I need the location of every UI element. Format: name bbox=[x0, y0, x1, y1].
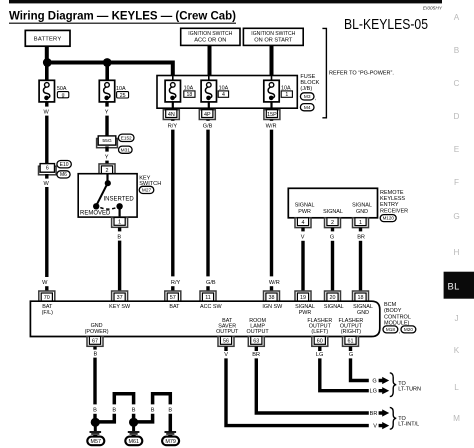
svg-text:W: W bbox=[44, 181, 50, 187]
wire W seg4 bbox=[45, 187, 48, 277]
svg-text:B: B bbox=[168, 408, 172, 414]
oval M120 bbox=[380, 215, 396, 222]
svg-text:H: H bbox=[454, 248, 460, 257]
svg-text:V: V bbox=[301, 235, 305, 241]
wire to fuse 25 bbox=[105, 63, 109, 82]
svg-text:SIGNAL: SIGNAL bbox=[295, 203, 315, 209]
BCM pin names bottom bbox=[85, 318, 364, 335]
wire Y seg4 bbox=[105, 161, 108, 166]
wire W seg2 bbox=[45, 116, 48, 165]
svg-text:M18: M18 bbox=[386, 327, 396, 332]
svg-text:57: 57 bbox=[170, 295, 176, 301]
oval M3 bbox=[300, 93, 314, 100]
svg-text:M31: M31 bbox=[121, 147, 131, 153]
svg-text:INSERTED: INSERTED bbox=[103, 196, 134, 202]
key switch pin 1 bbox=[112, 218, 128, 228]
junction node gnd2 bbox=[129, 418, 138, 427]
svg-text:REMOTE: REMOTE bbox=[380, 190, 404, 196]
BCM top pins bbox=[39, 291, 55, 301]
fuse 25 10A bbox=[99, 80, 114, 102]
svg-text:RECEIVER: RECEIVER bbox=[380, 208, 408, 214]
svg-text:OUTPUT: OUTPUT bbox=[216, 329, 239, 335]
svg-text:2: 2 bbox=[331, 220, 334, 226]
gnd link 1 bbox=[97, 394, 134, 422]
svg-text:REMOVED: REMOVED bbox=[80, 211, 111, 217]
svg-text:KEY SW: KEY SW bbox=[109, 304, 131, 310]
svg-text:56: 56 bbox=[223, 339, 229, 345]
svg-text:Y: Y bbox=[105, 155, 109, 161]
svg-text:REFER TO “PG-POWER”.: REFER TO “PG-POWER”. bbox=[329, 70, 394, 76]
svg-text:L: L bbox=[454, 383, 459, 392]
svg-text:B: B bbox=[132, 408, 136, 414]
svg-text:M57: M57 bbox=[91, 439, 102, 445]
wire Y seg1 bbox=[105, 102, 108, 107]
wire R/Y seg1 bbox=[171, 120, 174, 121]
svg-text:M120: M120 bbox=[383, 216, 395, 221]
svg-text:M4: M4 bbox=[304, 105, 311, 111]
svg-text:Wiring Diagram — KEYLES — (Cre: Wiring Diagram — KEYLES — (Crew Cab) bbox=[9, 9, 236, 23]
svg-text:F: F bbox=[454, 178, 459, 187]
svg-text:IGNITION SWITCH: IGNITION SWITCH bbox=[188, 31, 232, 37]
wire W seg5 bbox=[45, 286, 48, 292]
margin BL tab bbox=[444, 272, 474, 299]
top rule bar bbox=[9, 0, 442, 3]
connector 55G (E152/M31) bbox=[97, 136, 118, 148]
refer bracket bbox=[322, 28, 326, 117]
arrow G bbox=[379, 377, 390, 384]
svg-text:J: J bbox=[454, 314, 458, 323]
svg-text:C: C bbox=[454, 79, 460, 88]
svg-text:PWR: PWR bbox=[298, 209, 311, 215]
svg-text:W/R: W/R bbox=[269, 280, 280, 286]
svg-text:1: 1 bbox=[285, 92, 288, 98]
oval M18 bbox=[383, 326, 398, 333]
svg-text:SIGNAL: SIGNAL bbox=[323, 209, 343, 215]
key switch pin 2 bbox=[99, 164, 115, 174]
svg-text:50A: 50A bbox=[57, 86, 67, 92]
svg-text:11: 11 bbox=[205, 295, 211, 301]
svg-text:67: 67 bbox=[92, 339, 98, 345]
wire G/B seg3 bbox=[206, 286, 209, 292]
wire R/Y seg3 bbox=[171, 286, 174, 292]
svg-text:BL: BL bbox=[448, 281, 460, 292]
BCM name bbox=[384, 302, 411, 327]
wire G/B seg1 bbox=[206, 120, 209, 121]
svg-text:(RIGHT): (RIGHT) bbox=[341, 329, 362, 335]
wire BR bbox=[359, 228, 362, 232]
svg-text:ACC OR ON: ACC OR ON bbox=[194, 38, 226, 44]
svg-text:PWR: PWR bbox=[299, 310, 312, 316]
power bus wire bbox=[45, 63, 173, 77]
svg-text:(J/B): (J/B) bbox=[300, 86, 312, 92]
svg-text:10A: 10A bbox=[116, 86, 126, 92]
pin 15P bbox=[264, 110, 280, 120]
svg-text:Y: Y bbox=[105, 109, 109, 115]
svg-text:G: G bbox=[372, 379, 376, 385]
svg-text:61: 61 bbox=[348, 339, 354, 345]
pin 4P bbox=[199, 110, 215, 120]
svg-text:60: 60 bbox=[317, 339, 323, 345]
wire R/Y seg2 bbox=[171, 130, 174, 277]
svg-text:1: 1 bbox=[359, 220, 362, 226]
svg-text:LG: LG bbox=[369, 389, 376, 395]
oval M20 bbox=[401, 326, 416, 333]
svg-text:BCM: BCM bbox=[384, 302, 397, 308]
fuse block J/B box bbox=[157, 76, 297, 109]
key switch inserted contact bbox=[116, 203, 122, 209]
fuse 4 10A bbox=[208, 76, 210, 81]
svg-text:M6: M6 bbox=[60, 172, 67, 178]
svg-text:(F/L): (F/L) bbox=[42, 310, 54, 316]
svg-text:BAT: BAT bbox=[169, 304, 180, 310]
svg-text:4P: 4P bbox=[204, 112, 211, 118]
svg-text:W: W bbox=[42, 280, 48, 286]
fuse 18 10A bbox=[172, 76, 174, 81]
svg-text:EI005HY: EI005HY bbox=[423, 6, 443, 12]
svg-text:37: 37 bbox=[117, 295, 123, 301]
svg-text:E: E bbox=[454, 145, 460, 154]
remote keyless entry receiver box bbox=[288, 188, 377, 218]
svg-text:1: 1 bbox=[118, 220, 121, 226]
wire B seg1 bbox=[118, 227, 121, 231]
svg-text:R/Y: R/Y bbox=[171, 280, 181, 286]
arrow LG bbox=[379, 387, 390, 394]
wire W seg1 bbox=[45, 102, 48, 107]
fusible link g 50A bbox=[39, 80, 54, 102]
key switch common contact bbox=[106, 174, 108, 183]
svg-text:B: B bbox=[94, 351, 98, 357]
brace to LT-TURN bbox=[390, 373, 396, 397]
svg-text:V: V bbox=[373, 424, 377, 430]
BCM body control module box bbox=[30, 301, 379, 336]
svg-text:BR: BR bbox=[252, 352, 260, 358]
svg-text:LT-TURN: LT-TURN bbox=[398, 387, 421, 393]
oval M4 bbox=[300, 104, 314, 111]
svg-text:LG: LG bbox=[316, 352, 323, 358]
wire battery down bbox=[45, 46, 49, 62]
svg-text:E152: E152 bbox=[121, 135, 132, 140]
receiver pin 1 bbox=[353, 218, 369, 228]
svg-text:W: W bbox=[44, 109, 50, 115]
BCM bottom pins bbox=[87, 337, 103, 347]
svg-text:V: V bbox=[224, 352, 228, 358]
battery box bbox=[25, 30, 70, 46]
svg-text:G/B: G/B bbox=[203, 123, 213, 129]
junction node 1 bbox=[43, 58, 52, 67]
svg-text:G/B: G/B bbox=[206, 280, 216, 286]
svg-text:ENTRY: ENTRY bbox=[380, 202, 399, 208]
gnd link 2 bbox=[135, 394, 170, 432]
receiver pin 2 bbox=[325, 218, 341, 228]
junction node 2 bbox=[103, 58, 112, 67]
svg-text:M27: M27 bbox=[142, 188, 152, 194]
fuse block label bbox=[300, 74, 319, 92]
svg-text:IGN SW: IGN SW bbox=[262, 304, 283, 310]
connector 6 (E10/M6) bbox=[39, 164, 57, 175]
svg-text:SIGNAL: SIGNAL bbox=[324, 304, 344, 310]
svg-text:A: A bbox=[454, 13, 460, 22]
svg-text:(BODY: (BODY bbox=[384, 308, 402, 314]
svg-text:g: g bbox=[62, 93, 65, 99]
svg-text:ACC SW: ACC SW bbox=[200, 304, 222, 310]
svg-text:BR: BR bbox=[357, 235, 365, 241]
svg-text:BATTERY: BATTERY bbox=[34, 37, 62, 43]
svg-text:B: B bbox=[117, 234, 121, 240]
margin index letters bbox=[453, 13, 460, 423]
svg-text:,: , bbox=[399, 329, 400, 335]
svg-text:B: B bbox=[454, 46, 460, 55]
wire W seg3 bbox=[45, 174, 48, 179]
brace to LT-INT/L bbox=[390, 407, 396, 429]
svg-text:R/Y: R/Y bbox=[168, 123, 178, 129]
svg-text:M: M bbox=[453, 414, 460, 423]
arrow BR bbox=[379, 409, 390, 416]
svg-text:18: 18 bbox=[358, 295, 364, 301]
svg-text:25: 25 bbox=[120, 93, 126, 99]
svg-text:19: 19 bbox=[300, 295, 306, 301]
fuse block stubs to pins bbox=[172, 102, 174, 111]
svg-text:G: G bbox=[349, 352, 353, 358]
svg-text:GND: GND bbox=[357, 310, 369, 316]
wire W/R seg2 bbox=[270, 130, 273, 277]
junction node gnd1 bbox=[91, 418, 100, 427]
svg-text:B: B bbox=[151, 408, 155, 414]
oval M6 bbox=[57, 171, 70, 178]
wire ACC down bbox=[208, 45, 212, 76]
svg-text:4: 4 bbox=[222, 92, 225, 98]
wire W/R seg1 bbox=[270, 120, 273, 121]
svg-text:CONTROL: CONTROL bbox=[384, 314, 411, 320]
svg-text:M3: M3 bbox=[304, 94, 311, 100]
svg-text:M20: M20 bbox=[404, 327, 414, 332]
wire G bbox=[331, 228, 334, 232]
svg-text:SIGNAL: SIGNAL bbox=[352, 203, 372, 209]
svg-text:BL-KEYLES-05: BL-KEYLES-05 bbox=[344, 17, 428, 33]
fuse 1 10A bbox=[271, 76, 273, 81]
svg-text:B: B bbox=[93, 408, 97, 414]
svg-text:LT-INT/L: LT-INT/L bbox=[398, 422, 419, 428]
svg-text:IGNITION SWITCH: IGNITION SWITCH bbox=[251, 31, 295, 37]
wire B seg2 bbox=[118, 241, 121, 292]
svg-text:K: K bbox=[454, 346, 460, 355]
wire Y seg3 bbox=[105, 146, 108, 151]
svg-text:63: 63 bbox=[253, 339, 259, 345]
svg-text:G: G bbox=[453, 212, 459, 221]
wire ON/START down bbox=[270, 45, 274, 76]
wire to fusible link bbox=[45, 63, 49, 82]
wire W/R seg3 bbox=[270, 286, 273, 292]
svg-text:70: 70 bbox=[44, 295, 50, 301]
wire Y seg2 bbox=[105, 116, 108, 137]
oval E152 bbox=[118, 134, 134, 141]
svg-text:M79: M79 bbox=[165, 439, 176, 445]
svg-text:4N: 4N bbox=[168, 112, 175, 118]
svg-text:B: B bbox=[112, 408, 116, 414]
svg-text:M61: M61 bbox=[129, 439, 140, 445]
svg-text:OUTPUT: OUTPUT bbox=[247, 329, 270, 335]
svg-text:W/R: W/R bbox=[266, 123, 277, 129]
svg-text:BR: BR bbox=[370, 411, 378, 417]
svg-text:(LEFT): (LEFT) bbox=[311, 329, 328, 335]
svg-text:55G: 55G bbox=[102, 138, 111, 144]
svg-text:E10: E10 bbox=[60, 162, 69, 168]
svg-text:(POWER): (POWER) bbox=[85, 329, 109, 335]
ground symbol M57 bbox=[94, 424, 97, 431]
key switch box M27 bbox=[78, 174, 137, 217]
svg-text:ON OR START: ON OR START bbox=[254, 38, 293, 44]
svg-text:D: D bbox=[454, 112, 460, 121]
svg-text:38: 38 bbox=[269, 295, 275, 301]
receiver name bbox=[380, 190, 408, 215]
svg-text:G: G bbox=[330, 235, 334, 241]
oval M27 bbox=[139, 186, 154, 193]
ground symbol M61 bbox=[132, 424, 135, 431]
oval E10 bbox=[57, 161, 71, 168]
arrow V bbox=[379, 422, 390, 429]
svg-text:18: 18 bbox=[187, 92, 193, 98]
svg-text:GND: GND bbox=[356, 209, 368, 215]
wire V bbox=[301, 228, 304, 232]
wire G/B seg2 bbox=[206, 130, 209, 277]
pin 4N bbox=[163, 110, 179, 120]
svg-text:,: , bbox=[315, 96, 316, 102]
ignition switch ON/START box bbox=[243, 28, 303, 45]
svg-text:KEYLESS: KEYLESS bbox=[380, 196, 405, 202]
BCM pin names top bbox=[42, 304, 373, 316]
oval M31 bbox=[119, 146, 133, 153]
svg-text:15P: 15P bbox=[267, 112, 277, 118]
receiver pin 4 bbox=[295, 218, 311, 228]
svg-text:4: 4 bbox=[302, 220, 305, 226]
svg-text:6: 6 bbox=[46, 166, 49, 172]
key switch arm (removed position) bbox=[96, 184, 107, 206]
svg-text:20: 20 bbox=[330, 295, 336, 301]
ground symbol M79 bbox=[165, 431, 177, 436]
dashed motion arc bbox=[100, 208, 116, 210]
ignition switch ACC box bbox=[181, 28, 240, 45]
wire B from pin 67 bbox=[93, 346, 96, 349]
